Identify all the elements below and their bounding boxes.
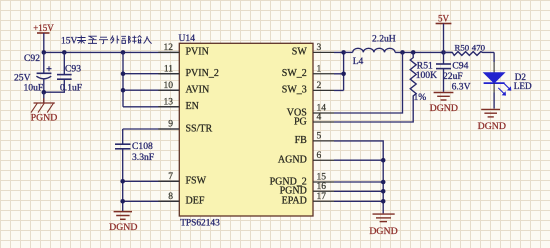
svg-text:TPS62143: TPS62143 xyxy=(180,219,220,229)
node junction pin11 xyxy=(121,71,126,76)
wire main input rail xyxy=(44,51,180,53)
node junction EPAD xyxy=(381,199,386,204)
ground DGND left xyxy=(109,212,137,234)
svg-text:3: 3 xyxy=(317,43,322,53)
wire EPAD xyxy=(334,200,383,202)
svg-text:SW: SW xyxy=(292,47,308,58)
node junction SW xyxy=(341,50,346,55)
svg-text:5: 5 xyxy=(317,132,322,142)
capacitor C93 xyxy=(44,52,82,93)
pin 11 PVIN_2 xyxy=(158,64,219,79)
svg-text:10uF: 10uF xyxy=(24,82,44,93)
svg-text:U14: U14 xyxy=(179,33,196,44)
svg-text:9: 9 xyxy=(168,120,173,130)
svg-text:C93: C93 xyxy=(65,63,81,74)
svg-text:13: 13 xyxy=(164,97,174,107)
wire to pin 11 xyxy=(123,73,179,75)
svg-text:C108: C108 xyxy=(132,141,153,152)
pin 7 FSW xyxy=(158,172,206,187)
node junction pin8 xyxy=(120,199,125,204)
svg-text:DGND: DGND xyxy=(430,103,458,114)
wire AGND xyxy=(334,159,383,161)
svg-text:+15V: +15V xyxy=(33,23,54,33)
node junction VOS riser xyxy=(400,50,405,55)
wire L4 to output node xyxy=(395,51,452,53)
wire to pin 13 xyxy=(123,106,179,108)
node junction at C93 top xyxy=(62,50,67,55)
svg-text:PVIN: PVIN xyxy=(186,47,209,58)
pin 9 SS/TR xyxy=(158,120,212,135)
svg-text:1: 1 xyxy=(317,64,322,74)
svg-text:10: 10 xyxy=(164,81,174,91)
pin 2 SW_3 xyxy=(282,81,334,96)
svg-text:PGND: PGND xyxy=(31,112,58,123)
wire pin 9 to C108 xyxy=(123,128,180,130)
ground PGND xyxy=(31,98,58,123)
pin 1 SW_2 xyxy=(282,64,334,79)
svg-text:FB: FB xyxy=(295,135,308,146)
svg-text:17: 17 xyxy=(317,192,327,202)
capacitor C108 xyxy=(115,129,154,211)
wire to PGND xyxy=(43,92,45,103)
wire pin 8 DEF xyxy=(123,200,180,202)
svg-text:DGND: DGND xyxy=(478,121,506,132)
capacitor C94 xyxy=(436,52,471,92)
svg-text:DGND: DGND xyxy=(369,226,397,237)
svg-text:11: 11 xyxy=(164,64,173,74)
svg-text:SW_3: SW_3 xyxy=(282,85,307,96)
pin 12 PVIN xyxy=(158,43,209,58)
wire pin 7 FSW xyxy=(123,180,180,182)
pin 15 PGND_2 xyxy=(270,173,334,188)
svg-text:EN: EN xyxy=(186,101,199,112)
power port +15V xyxy=(33,23,54,52)
pin 5 FB xyxy=(295,132,334,147)
node junction at left bus xyxy=(121,50,126,55)
wire PGND xyxy=(334,190,383,192)
svg-text:470: 470 xyxy=(472,43,486,53)
resistor R50 xyxy=(444,43,495,56)
resistor R51 xyxy=(334,52,437,122)
svg-text:DGND: DGND xyxy=(109,222,137,233)
pin 6 AGND xyxy=(278,151,334,166)
wire FB down bus xyxy=(334,141,383,214)
svg-text:12: 12 xyxy=(164,43,174,53)
power port 5V xyxy=(436,13,452,52)
node junction SW_2 xyxy=(341,72,346,77)
node junction R51 top xyxy=(411,50,416,55)
svg-text:3.3nF: 3.3nF xyxy=(132,152,154,163)
capacitor C92 xyxy=(14,52,52,93)
svg-text:15V: 15V xyxy=(61,37,78,47)
node junction C92/C93 bottom xyxy=(42,90,47,95)
inductor L4 xyxy=(353,34,396,67)
pin 13 EN xyxy=(158,97,199,112)
pin 8 DEF xyxy=(158,192,205,207)
IC U14 TPS62143 body xyxy=(179,33,314,229)
node junction AGND xyxy=(381,158,386,163)
svg-text:2.2uH: 2.2uH xyxy=(372,34,396,45)
svg-text:FSW: FSW xyxy=(186,176,207,187)
ground DGND center xyxy=(369,214,397,237)
pin 16 PGND xyxy=(280,182,334,197)
svg-text:2: 2 xyxy=(317,81,322,91)
svg-text:AGND: AGND xyxy=(278,155,307,166)
svg-text:PVIN_2: PVIN_2 xyxy=(186,68,219,79)
svg-text:100K: 100K xyxy=(416,70,437,81)
ground DGND under LED xyxy=(478,109,506,132)
wire PGND_2 xyxy=(334,181,383,183)
ground DGND under C94 xyxy=(430,93,458,114)
svg-text:SS/TR: SS/TR xyxy=(186,123,213,134)
svg-text:6.3V: 6.3V xyxy=(452,81,471,92)
node junction PGND xyxy=(381,189,386,194)
svg-text:C94: C94 xyxy=(452,60,468,71)
svg-text:6: 6 xyxy=(317,151,322,161)
svg-text:LED: LED xyxy=(514,81,532,91)
svg-text:1%: 1% xyxy=(414,92,427,103)
wire left bus vertical xyxy=(122,52,124,106)
wire to pin 10 xyxy=(123,89,179,91)
svg-text:L4: L4 xyxy=(353,56,364,67)
svg-text:R50: R50 xyxy=(455,43,470,53)
node junction pin7/C108 xyxy=(120,179,125,184)
svg-text:8: 8 xyxy=(168,192,173,202)
svg-text:EPAD: EPAD xyxy=(282,196,307,207)
comment text 15V from external input xyxy=(61,36,152,47)
node junction pin10 xyxy=(121,88,126,93)
svg-text:5V: 5V xyxy=(438,13,450,23)
svg-text:4: 4 xyxy=(317,113,322,123)
svg-text:16: 16 xyxy=(317,182,327,192)
pin 10 AVIN xyxy=(158,81,209,96)
svg-text:SW_2: SW_2 xyxy=(282,68,307,79)
svg-text:C92: C92 xyxy=(24,53,40,64)
pin 14 VOS xyxy=(287,104,334,119)
pin 17 EPAD xyxy=(282,192,334,207)
pin 3 SW xyxy=(292,43,334,58)
svg-text:7: 7 xyxy=(168,172,173,182)
pin 4 PG xyxy=(294,113,334,128)
node junction PGND_2 xyxy=(381,180,386,185)
svg-text:AVIN: AVIN xyxy=(186,85,210,96)
wire SW to L4 xyxy=(344,51,353,53)
svg-text:0.1uF: 0.1uF xyxy=(60,82,82,93)
svg-text:PG: PG xyxy=(294,116,307,127)
svg-text:DEF: DEF xyxy=(186,196,205,207)
wire SW bus xyxy=(334,52,344,90)
LED D2 xyxy=(484,52,532,108)
node junction at C92 top xyxy=(42,50,47,55)
wire VOS riser xyxy=(334,52,403,113)
node junction 5V/C94 xyxy=(441,50,446,55)
